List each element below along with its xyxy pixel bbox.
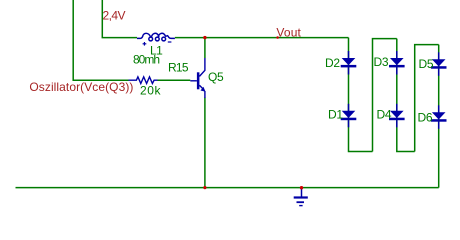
svg-text:D6: D6 <box>418 110 433 124</box>
svg-text:2,4V: 2,4V <box>103 9 126 23</box>
node column D wire <box>415 45 439 152</box>
junction dot collector/top wire <box>203 36 206 39</box>
junction dot ground symbol <box>300 186 303 189</box>
wire resistor to transistor base <box>158 79 191 81</box>
node column B wire <box>373 39 397 152</box>
node column A wire <box>349 38 373 152</box>
svg-text:D5: D5 <box>419 57 434 71</box>
ground <box>294 188 308 206</box>
diode D3 <box>389 51 405 75</box>
svg-text:D2: D2 <box>325 56 340 70</box>
svg-text:Oszillator(Vce(Q3)): Oszillator(Vce(Q3)) <box>29 80 133 94</box>
junction dot emitter/ground rail <box>203 186 206 189</box>
svg-text:D4: D4 <box>377 107 392 121</box>
ground rail wire <box>16 187 439 189</box>
node Vout anchor dot <box>276 36 279 39</box>
svg-text:D1: D1 <box>328 107 343 121</box>
node column C wire <box>397 39 415 152</box>
svg-text:Q5: Q5 <box>208 70 224 84</box>
svg-text:R15: R15 <box>168 60 189 74</box>
diode D5 <box>431 52 447 76</box>
wire collector up to junction <box>204 38 206 58</box>
svg-text:Vout: Vout <box>276 25 301 39</box>
inductor plus mark <box>143 42 147 46</box>
inductor minus mark <box>168 41 172 43</box>
wire vertical 2,4V feed <box>102 0 137 38</box>
diode D1 <box>341 104 357 128</box>
wire inductor to diode column A <box>175 37 349 39</box>
svg-text:D3: D3 <box>374 55 389 69</box>
wire emitter down to ground rail <box>204 98 206 188</box>
diode D2 <box>341 51 357 75</box>
node column E wire <box>438 45 440 188</box>
diode D6 <box>431 105 447 129</box>
svg-text:80mh: 80mh <box>133 52 160 66</box>
diode D4 <box>389 104 405 128</box>
resistor R15 <box>129 77 158 84</box>
wire vertical left (to Oszillator bend) <box>73 0 128 80</box>
svg-text:20k: 20k <box>140 83 162 97</box>
inductor L1 <box>137 33 175 41</box>
transistor Q5 <box>190 58 205 98</box>
